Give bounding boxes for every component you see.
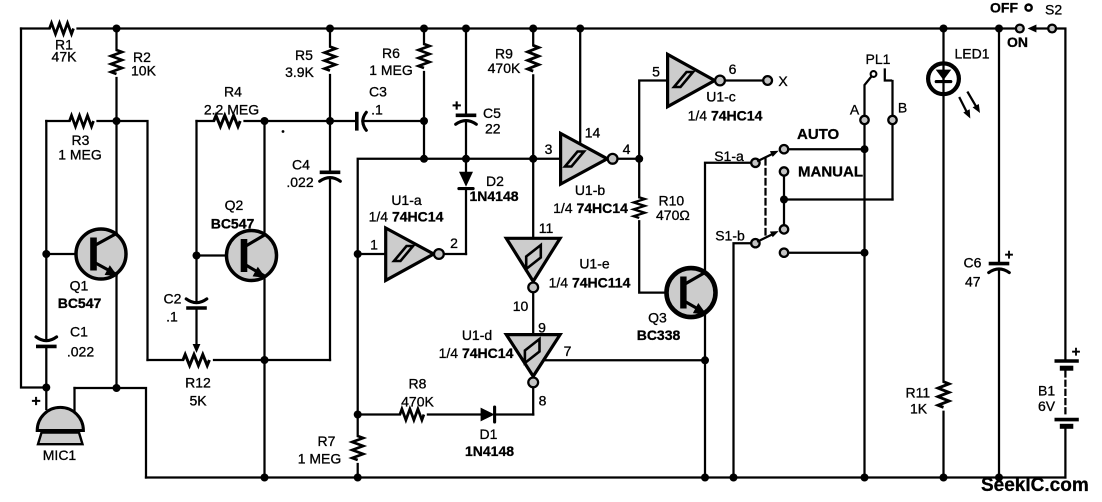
svg-text:3.9K: 3.9K	[285, 64, 314, 80]
svg-text:S1-b: S1-b	[715, 228, 745, 244]
svg-text:1/4 74HC14: 1/4 74HC14	[553, 200, 628, 216]
svg-text:470Ω: 470Ω	[656, 207, 690, 223]
svg-text:11: 11	[539, 220, 554, 236]
svg-text:MIC1: MIC1	[43, 447, 77, 463]
svg-text:C1: C1	[70, 324, 88, 340]
svg-text:D2: D2	[486, 173, 504, 189]
svg-text:Q2: Q2	[225, 197, 244, 213]
svg-text:2: 2	[450, 235, 458, 251]
svg-text:R5: R5	[295, 47, 313, 63]
svg-text:C3: C3	[369, 84, 387, 100]
svg-text:.1: .1	[371, 102, 383, 118]
svg-text:1/4 74HC114: 1/4 74HC114	[549, 275, 631, 291]
svg-text:Q3: Q3	[648, 310, 667, 326]
svg-text:470K: 470K	[488, 60, 521, 76]
svg-text:BC338: BC338	[637, 327, 681, 343]
svg-text:14: 14	[585, 125, 601, 141]
svg-text:.1: .1	[166, 309, 178, 325]
svg-text:C4: C4	[292, 157, 310, 173]
svg-text:MANUAL: MANUAL	[798, 164, 863, 181]
svg-text:A: A	[850, 102, 860, 118]
svg-text:R12: R12	[185, 375, 211, 391]
svg-text:SeekIC.com: SeekIC.com	[981, 475, 1089, 496]
svg-text:9: 9	[538, 320, 546, 336]
svg-text:C2: C2	[164, 291, 182, 307]
svg-text:X: X	[778, 73, 788, 89]
svg-text:6V: 6V	[1038, 398, 1056, 414]
svg-text:U1-c: U1-c	[706, 89, 736, 105]
svg-text:U1-e: U1-e	[579, 256, 610, 272]
svg-text:B1: B1	[1038, 383, 1055, 399]
svg-text:10K: 10K	[131, 63, 157, 79]
svg-text:R8: R8	[409, 376, 427, 392]
svg-text:5K: 5K	[189, 393, 207, 409]
svg-text:U1-d: U1-d	[462, 327, 492, 343]
svg-text:BC547: BC547	[211, 216, 255, 232]
svg-text:1N4148: 1N4148	[465, 443, 514, 459]
svg-text:1 MEG: 1 MEG	[369, 62, 413, 78]
svg-text:1 MEG: 1 MEG	[298, 451, 342, 467]
svg-text:5: 5	[652, 64, 660, 80]
svg-text:S2: S2	[1045, 2, 1062, 18]
svg-text:4: 4	[623, 141, 631, 157]
svg-text:ON: ON	[1007, 34, 1028, 50]
svg-text:1K: 1K	[910, 401, 928, 417]
svg-text:S1-a: S1-a	[714, 148, 744, 164]
svg-text:+: +	[1072, 344, 1081, 361]
svg-text:47K: 47K	[52, 49, 78, 65]
svg-text:Q1: Q1	[70, 278, 89, 294]
svg-text:470K: 470K	[401, 394, 434, 410]
svg-text:R6: R6	[382, 45, 400, 61]
svg-text:+: +	[31, 393, 40, 410]
svg-text:OFF: OFF	[990, 0, 1018, 16]
svg-text:+: +	[452, 98, 461, 115]
svg-text:1 MEG: 1 MEG	[58, 147, 102, 163]
svg-text:R7: R7	[318, 433, 336, 449]
svg-text:U1-b: U1-b	[575, 182, 606, 198]
svg-text:1/4 74HC14: 1/4 74HC14	[439, 345, 514, 361]
svg-text:10: 10	[513, 298, 529, 314]
svg-text:C5: C5	[483, 105, 501, 121]
svg-text:BC547: BC547	[58, 295, 102, 311]
svg-text:C6: C6	[964, 255, 982, 271]
svg-text:LED1: LED1	[955, 46, 990, 62]
svg-text:7: 7	[564, 343, 572, 359]
svg-text:U1-a: U1-a	[391, 192, 422, 208]
svg-text:R4: R4	[224, 84, 242, 100]
svg-text:1: 1	[370, 237, 378, 253]
svg-text:2.2 MEG: 2.2 MEG	[204, 102, 259, 118]
svg-text:47: 47	[965, 274, 981, 290]
svg-text:AUTO: AUTO	[797, 126, 840, 143]
svg-text:1/4 74HC14: 1/4 74HC14	[369, 209, 444, 225]
svg-text:PL1: PL1	[866, 51, 891, 67]
svg-text:22: 22	[485, 121, 501, 137]
svg-text:3: 3	[545, 141, 553, 157]
svg-text:1/4 74HC14: 1/4 74HC14	[688, 108, 763, 124]
svg-text:6: 6	[729, 61, 737, 77]
svg-text:+: +	[1005, 247, 1014, 264]
svg-text:B: B	[898, 100, 907, 116]
svg-text:1N4148: 1N4148	[469, 188, 518, 204]
svg-text:8: 8	[539, 393, 547, 409]
svg-text:D1: D1	[480, 426, 498, 442]
svg-text:.022: .022	[67, 344, 94, 360]
svg-text:.022: .022	[286, 174, 313, 190]
svg-text:R11: R11	[906, 385, 931, 401]
